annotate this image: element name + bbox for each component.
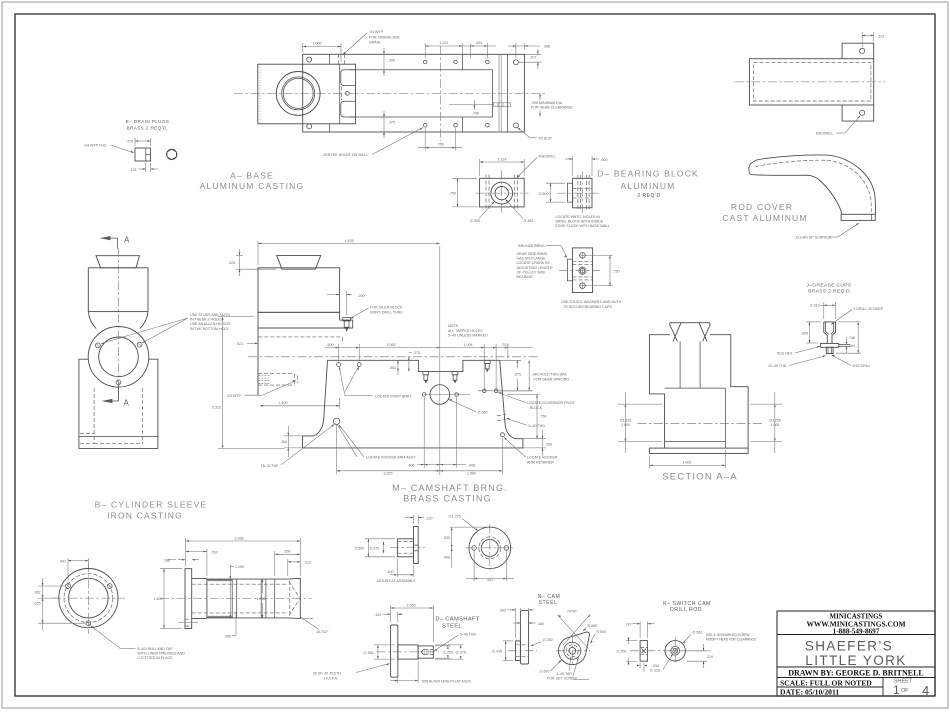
centerline [637,422,762,424]
dim 1.124 [424,43,426,58]
svg-text:.400: .400 [387,570,394,574]
svg-text:.541: .541 [59,560,66,564]
angle X lines [558,615,589,649]
left pair holes [337,363,341,367]
dim .250 right [542,430,544,456]
body profile left slope [303,360,328,448]
dim .500 left [806,321,821,323]
svg-text:1/4 WTP THD.: 1/4 WTP THD. [84,144,107,148]
gear holes right [478,390,531,392]
svg-text:A: A [124,236,130,245]
svg-text:.362: .362 [34,591,41,595]
wall center hole [345,92,349,96]
svg-text:5/16 DRILL: 5/16 DRILL [853,364,871,368]
dim .303 [469,43,471,58]
dim .368 [287,426,289,457]
svg-text:NOTE:: NOTE: [448,324,459,328]
svg-text:K– SWITCH CAM: K– SWITCH CAM [663,601,711,607]
hidden 5-40 thd on slope [497,415,506,421]
dim .750 right [507,394,540,396]
svg-text:1.190: 1.190 [235,565,244,569]
leader from bore [663,654,673,670]
drain hole hidden [339,54,345,64]
svg-text:1.124: 1.124 [498,157,507,161]
curved side view [758,155,876,214]
dim row y347.6 [338,344,340,362]
dim .812 [473,551,475,582]
svg-text:DATE: 05/10/2011: DATE: 05/10/2011 [780,687,839,696]
svg-text:STEEL: STEEL [442,624,462,630]
hidden tapped holes left [258,374,298,385]
svg-text:.207: .207 [530,55,537,59]
wall vertical [339,64,341,124]
svg-text:LOCATE ROCKER: LOCATE ROCKER [527,456,558,460]
hidden lines [572,261,592,280]
svg-text:2.625: 2.625 [384,472,393,476]
dim .125 [145,163,147,172]
svg-text:.390: .390 [388,59,395,63]
plug body [135,148,151,161]
svg-text:#08 DRILL: #08 DRILL [539,154,556,158]
svg-text:.406: .406 [408,463,415,467]
svg-text:.750: .750 [449,192,456,196]
svg-text:∅.500: ∅.500 [538,192,548,196]
bottom flange [649,448,748,453]
svg-text:.500: .500 [327,343,334,347]
flare curves to flange [88,312,96,329]
cup body [824,322,836,344]
base outline [303,54,525,132]
svg-text:ALUMINUM: ALUMINUM [621,181,676,191]
svg-text:.368: .368 [280,440,287,444]
svg-text:14.5 P.A.: 14.5 P.A. [324,676,338,680]
cap rect [572,248,592,293]
svg-text:30 DP. 40 TEETH: 30 DP. 40 TEETH [313,672,342,676]
svg-text:3–40 TAP: 3–40 TAP [556,672,572,676]
RETAINER part (top of bottom group) [354,515,514,583]
flange bolt holes [96,343,101,348]
svg-text:.250: .250 [545,443,552,447]
barrel sections [192,578,207,618]
dim .763 [206,549,208,576]
side view flange [185,569,192,629]
svg-text:DON’T DRILL THRU: DON’T DRILL THRU [370,310,403,314]
svg-text:.294: .294 [652,664,659,668]
svg-text:BLOCK: BLOCK [530,406,543,410]
svg-text:1.000: 1.000 [313,42,322,46]
svg-text:∅1.250: ∅1.250 [769,419,781,423]
lower stem [826,347,833,353]
svg-text:CENTER HOLES ON WALL: CENTER HOLES ON WALL [323,153,368,157]
big camshaft circle [430,385,450,405]
left rocker hole [333,418,339,424]
svg-text:.388: .388 [543,45,550,49]
dim 2.625 / 1.560 [337,470,503,472]
svg-text:OF PULLEY SIDE: OF PULLEY SIDE [517,270,547,274]
svg-text:.313: .313 [304,561,311,565]
svg-text:.187: .187 [625,623,632,627]
body bottom [303,447,524,449]
SECTION A-A [618,323,782,483]
BRONZE BRNG note + bearing cap [517,244,622,309]
section arrow A top [100,236,111,240]
plan view [749,59,873,105]
svg-text:.313: .313 [877,35,884,39]
svg-text:1.000: 1.000 [771,423,780,427]
MIDDLE VIEW : M- CAMSHAFT BRNG [212,239,576,504]
dim .400 [396,559,398,578]
dim .187 [397,612,399,622]
dim .406 row [417,464,466,466]
left dim [618,403,662,405]
dia .250 [628,637,630,644]
svg-text:USE STUDS, WASHERS AND NUTS: USE STUDS, WASHERS AND NUTS [561,300,621,304]
svg-text:A: A [124,399,130,408]
svg-text:5/16 HEX: 5/16 HEX [777,352,793,356]
cam profile [559,632,590,665]
svg-text:.100: .100 [426,516,433,520]
centerline [160,598,312,600]
svg-text:10–40 THD.: 10–40 THD. [768,364,787,368]
VIEW A : BASE plan view [200,30,574,191]
svg-text:∅.328: ∅.328 [650,669,660,673]
svg-text:.375: .375 [388,121,395,125]
svg-text:.750: .750 [437,143,444,147]
vertical centerline [118,248,120,400]
flange circle [88,327,149,388]
svg-text:IN THESE 2 HOLES: IN THESE 2 HOLES [190,318,223,322]
svg-text:ALL TAPPED HOLES: ALL TAPPED HOLES [448,329,483,333]
svg-text:USE AN ALLEN HD SCR.: USE AN ALLEN HD SCR. [190,322,231,326]
side view [573,178,592,208]
svg-text:2.938: 2.938 [235,536,244,540]
inner cavity rectangle [349,69,493,71]
svg-text:DRAWN BY: GEORGE D. BRITNELL: DRAWN BY: GEORGE D. BRITNELL [788,669,924,678]
inner wall line [329,54,331,64]
svg-text:1/4 WTP: 1/4 WTP [369,30,384,34]
svg-text:.812: .812 [487,578,494,582]
svg-text:TO SECURE BEARING CAPS: TO SECURE BEARING CAPS [563,305,612,309]
svg-text:TO SUIT: TO SUIT [538,136,553,140]
svg-text:D– CAMSHAFT: D– CAMSHAFT [435,617,479,623]
dim .750 [586,254,614,256]
svg-text:BRONZE BRNG.: BRONZE BRNG. [518,244,545,248]
bottom extension lines [423,397,425,468]
dim 2.938 [185,538,187,566]
dim .541 [67,558,69,583]
svg-text:LITTLE YORK: LITTLE YORK [805,653,906,668]
dim .540 [498,390,533,392]
svg-text:.500: .500 [801,331,808,335]
VIEW B : CYLINDER SLEEVE [34,500,342,681]
svg-text:.625: .625 [34,602,41,606]
horizontal centerline [234,92,545,94]
dim .908 [235,612,237,636]
svg-text:.325: .325 [228,261,235,265]
svg-text:.125: .125 [130,168,137,172]
svg-text:.533: .533 [443,536,450,540]
funnel top [96,256,140,268]
svg-text:74°00’: 74°00’ [567,609,577,613]
svg-text:B– CYLINDER SLEEVE: B– CYLINDER SLEEVE [95,500,208,510]
svg-text:LOCATE MNTG. HOLES IN: LOCATE MNTG. HOLES IN [556,215,601,219]
stud circles [580,253,586,259]
bore hidden lines [192,584,288,613]
svg-text:D– BEARING BLOCK: D– BEARING BLOCK [597,169,699,179]
dim .875 [500,359,521,361]
dia .438 [503,640,513,642]
dim .750 bottom [424,128,426,151]
svg-text:1-888-549-8697: 1-888-549-8697 [833,628,880,636]
svg-text:DRILL ROD: DRILL ROD [670,607,702,613]
svg-text:∅.687: ∅.687 [539,670,549,674]
svg-text:BRNG. BLOCK WITH INSIDE: BRNG. BLOCK WITH INSIDE [556,219,604,223]
svg-text:∅.500: ∅.500 [470,219,480,223]
svg-text:.750: .750 [540,415,547,419]
crankcase block [258,64,356,124]
svg-text:ADJUSTING LENGTH: ADJUSTING LENGTH [517,266,553,270]
dim dia .500 [365,538,395,540]
VIEW D : BEARING BLOCK [449,154,699,228]
dim .362 / .625 [38,585,65,587]
block left dotted edge [259,64,261,124]
svg-text:BRASS CASTING: BRASS CASTING [403,494,492,504]
oiler stud [343,318,351,321]
svg-text:∅.375: ∅.375 [456,651,466,655]
svg-text:2 REQ’D: 2 REQ’D [637,193,660,199]
dim 1.124 [479,159,481,176]
dim .375 [383,111,385,138]
svg-text:∅.562: ∅.562 [692,631,702,635]
svg-text:.188: .188 [163,559,170,563]
TITLE BLOCK [777,611,935,698]
svg-text:∅.250: ∅.250 [543,638,553,642]
dim .375 [134,138,136,146]
svg-text:.094: .094 [849,344,855,348]
dim .200 [339,291,341,310]
svg-text:.748: .748 [848,336,855,340]
VIEW N : CAM [492,594,606,681]
svg-text:.303: .303 [499,609,506,613]
dim .219 [687,650,707,652]
dim 4.625 [257,241,259,265]
svg-text:GEAR SIDE BRNG.: GEAR SIDE BRNG. [517,252,549,256]
dim .748 right [838,321,861,323]
svg-text:STEEL: STEEL [539,600,558,606]
dim .187 [639,622,641,639]
mounting holes hidden [486,175,517,211]
svg-text:BEARING: BEARING [517,275,533,279]
svg-text:.021: .021 [236,342,243,346]
svg-text:∅.438: ∅.438 [492,650,502,654]
svg-text:5–40 THD.: 5–40 THD. [529,424,546,428]
flange tapped hidden [185,619,192,626]
svg-text:.908: .908 [224,635,231,639]
svg-text:SCALE: FULL OR NOTED: SCALE: FULL OR NOTED [780,678,872,687]
dim 1.068 [390,605,392,622]
dim 1.000 [302,43,304,52]
svg-text:∅.383: ∅.383 [523,219,533,223]
18.742 deg [300,617,319,630]
inner bore walls [679,341,681,388]
svg-text:1.094: 1.094 [464,343,473,347]
svg-text:DRAIN: DRAIN [369,41,381,45]
svg-text:1.400: 1.400 [279,401,288,405]
VIEW K : SWITCH CAM [616,601,756,673]
svg-text:.313: .313 [502,343,509,347]
svg-text:.375: .375 [413,351,420,355]
dim .313 [287,559,289,576]
front view [665,641,685,661]
front rect [480,178,525,207]
dim .650 [274,551,276,576]
svg-text:5 DRILL .20 DEEP: 5 DRILL .20 DEEP [853,307,883,311]
front view [469,527,511,569]
hidden dashes below band [258,337,342,342]
svg-text:SHAEFER’S: SHAEFER’S [805,639,893,654]
J GREASE CUPS [768,283,884,369]
dim 2.312 [218,316,254,318]
svg-text:.650: .650 [284,550,291,554]
svg-text:M– CAMSHAFT BRNG.: M– CAMSHAFT BRNG. [392,483,508,493]
svg-text:18–32 TAP: 18–32 TAP [261,464,279,468]
dim .325 [239,249,241,276]
svg-text:WITH LINER PRESSED AND: WITH LINER PRESSED AND [137,651,185,655]
svg-text:FOR SET SCREW: FOR SET SCREW [547,677,577,681]
svg-text:.180: .180 [537,622,544,626]
body centerline [248,356,540,358]
upper rect [88,268,148,312]
funnel [277,255,321,269]
svg-text:1/4 WTP: 1/4 WTP [227,394,242,398]
body top edge and notch [328,360,500,371]
svg-text:1.500: 1.500 [154,597,163,601]
svg-text:1.000: 1.000 [621,423,630,427]
svg-text:∅.375: ∅.375 [369,547,379,551]
svg-text:2.312: 2.312 [212,406,221,410]
svg-text:LOCATE ROCKER ARM ASSY.: LOCATE ROCKER ARM ASSY. [366,455,416,459]
dim .390 [383,48,385,76]
cross bar [821,343,839,347]
svg-text:1: 1 [893,683,900,697]
gear teeth leader [356,664,390,673]
side view [640,641,647,662]
dim .180 [513,622,520,624]
dim 1.190 [229,565,231,618]
dim .100 [413,515,415,524]
extensions for .368 and .250 [284,435,303,437]
svg-text:5–40 UNLESS MARKED: 5–40 UNLESS MARKED [448,334,488,338]
bolt holes bottom row [307,124,312,129]
dim .063 [397,360,399,375]
svg-text:.398 MINIMUM DIA: .398 MINIMUM DIA [531,101,563,105]
right rocker hole [500,433,504,437]
dia .368 [374,644,395,646]
svg-text:USE 3–40 KNURLED SCREW: USE 3–40 KNURLED SCREW [706,633,749,637]
dim .500 top [572,156,574,176]
flange front view [59,569,118,628]
upright rect [258,268,340,313]
svg-text:2.063: 2.063 [387,343,396,347]
bolt holes top row [307,57,312,62]
bottom dim 1.000 [648,456,650,469]
dim 1.500 left [160,568,182,570]
dia .250 / .375 [435,645,451,647]
svg-text:.790: .790 [472,112,479,116]
svg-text:N– CAM: N– CAM [538,594,561,600]
svg-text:.375: .375 [126,140,133,144]
svg-text:.040 HOLD THIS DIM.: .040 HOLD THIS DIM. [532,373,568,377]
svg-text:IRON CASTING: IRON CASTING [107,511,183,521]
dim .207 [525,53,542,55]
svg-text:ALUMINUM CASTING: ALUMINUM CASTING [200,181,305,191]
svg-text:.200: .200 [358,294,365,298]
svg-text:IN THE BOTTOM HOLE: IN THE BOTTOM HOLE [190,327,229,331]
studs under notch floor [423,360,490,380]
svg-text:LOCATE CRANK BY: LOCATE CRANK BY [517,261,551,265]
svg-text:.219: .219 [706,655,713,659]
svg-text:.408: .408 [443,556,450,560]
section arrow A bottom [118,385,120,401]
svg-text:LOCTITED IN PLACE: LOCTITED IN PLACE [137,656,173,660]
svg-text:ADJUST AT ASSEMBLY: ADJUST AT ASSEMBLY [377,579,416,583]
vertical dashed centerline [439,46,441,141]
lower housing [79,359,158,448]
svg-text:FOR GEAR CLEARANCE: FOR GEAR CLEARANCE [531,106,573,110]
FRONT VIEW (left, section arrows A) [79,236,231,449]
svg-text:.505 ALTER LENGTH AT ASSY.: .505 ALTER LENGTH AT ASSY. [421,679,472,683]
hex head view [165,148,179,162]
svg-text:∅.500: ∅.500 [354,547,364,551]
svg-text:1.124: 1.124 [439,41,448,45]
svg-text:FOR CRANKCASE: FOR CRANKCASE [369,35,401,39]
right spigot [288,578,301,618]
svg-text:∅.368: ∅.368 [363,651,373,655]
svg-text:1.560: 1.560 [467,472,476,476]
.294 / .328 [639,663,641,668]
dim .750 [452,177,477,179]
svg-text:A– BASE: A– BASE [230,171,274,181]
svg-text:J–GREASE CUPS: J–GREASE CUPS [807,283,852,289]
V bracket leaders [339,367,344,392]
svg-text:∅1.125: ∅1.125 [620,419,632,423]
svg-text:.063: .063 [389,366,396,370]
svg-text:#30 DRILL: #30 DRILL [816,132,833,136]
dim .533/.408 [450,526,487,528]
svg-text:.500: .500 [601,158,608,162]
dim .313 [861,32,863,47]
right tabs [842,43,874,121]
svg-text:∅1.375: ∅1.375 [449,515,461,519]
VIEW D2 : CAMSHAFT [356,603,480,683]
svg-text:OF: OF [901,688,909,694]
threaded hole [424,649,433,654]
svg-text:LOCATE POINT BRKT.: LOCATE POINT BRKT. [375,394,412,398]
svg-text:4: 4 [922,683,929,698]
svg-text:∅.313: ∅.313 [810,304,820,308]
svg-text:1.000: 1.000 [257,597,266,601]
ROD COVER [722,32,884,240]
svg-text:.875: .875 [514,372,521,376]
svg-text:MODIFY HEAD FOR CLEARANCE: MODIFY HEAD FOR CLEARANCE [706,638,756,642]
outer body [649,335,748,448]
svg-text:HAS NO FLANGE: HAS NO FLANGE [517,257,547,261]
svg-text:∅.250: ∅.250 [443,651,453,655]
svg-text:1.068: 1.068 [407,603,416,607]
dim .500 left [546,182,565,184]
svg-text:BRASS 2 REQ’D.: BRASS 2 REQ’D. [808,289,851,295]
funnel section with x braces [670,322,710,324]
